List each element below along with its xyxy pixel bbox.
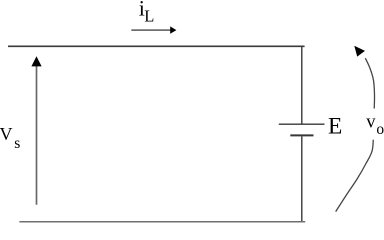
svg-text:v: v	[366, 112, 376, 132]
output voltage curved arrow v_o shaft	[336, 58, 375, 211]
battery E long plate	[279, 123, 325, 125]
svg-text:o: o	[376, 121, 384, 138]
wire top horizontal	[8, 45, 305, 47]
source arrow V_s head	[31, 56, 41, 66]
output voltage curved arrow v_o head	[354, 46, 365, 57]
svg-text:E: E	[328, 114, 342, 140]
label v_o background	[361, 109, 384, 140]
wire right vertical lower	[301, 136, 303, 221]
svg-text:V: V	[0, 124, 13, 144]
source arrow V_s shaft	[36, 65, 38, 205]
svg-text:s: s	[14, 135, 20, 152]
wire bottom horizontal	[19, 221, 305, 223]
wire right vertical upper	[301, 46, 303, 124]
current arrow i_L shaft	[131, 29, 171, 31]
svg-text:L: L	[144, 6, 154, 25]
current arrow i_L head	[170, 26, 176, 33]
battery E short plate	[290, 134, 313, 136]
